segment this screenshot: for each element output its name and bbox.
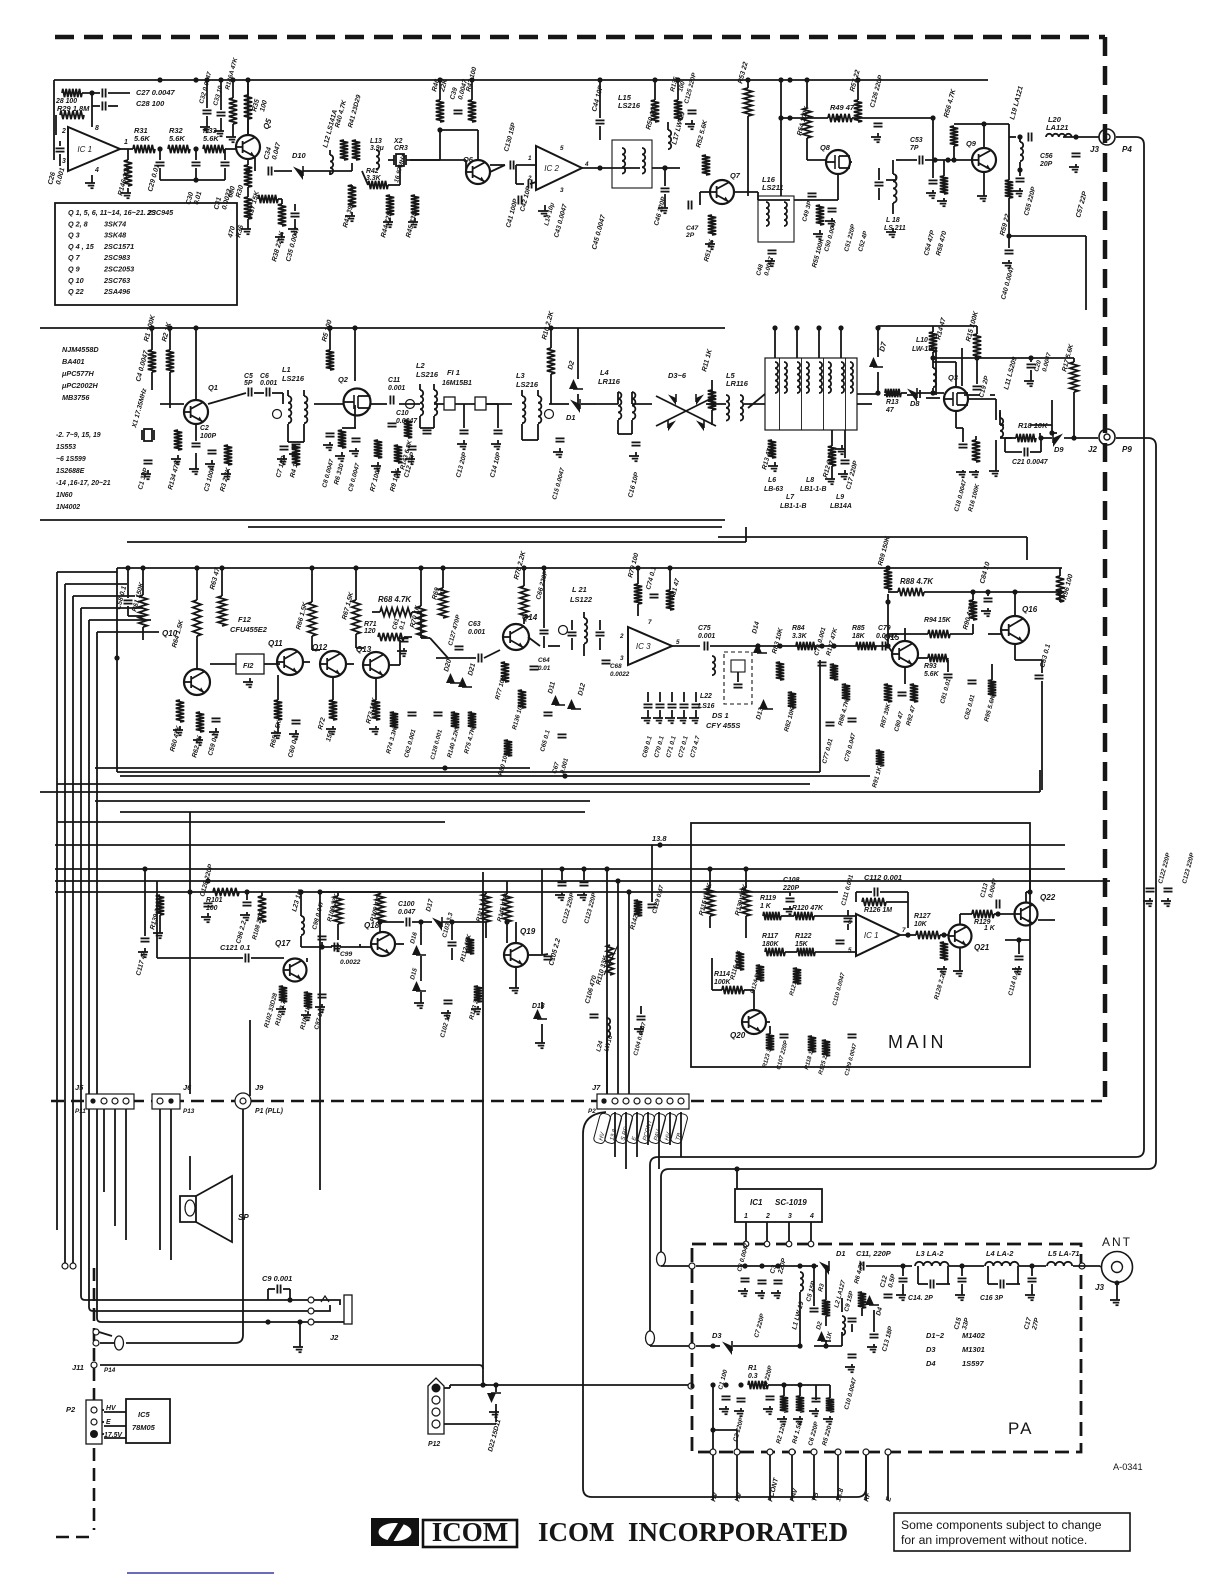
wire bbox=[1005, 451, 1022, 453]
label L20 LA121 bbox=[1046, 115, 1068, 132]
label C30 0.01 bbox=[185, 191, 203, 206]
ground bbox=[823, 1416, 833, 1424]
label D1~2 M1402 bbox=[926, 1331, 986, 1340]
wire bbox=[712, 1385, 714, 1455]
svg-text:Q 9: Q 9 bbox=[68, 265, 80, 274]
wire bbox=[371, 403, 387, 405]
wire bbox=[196, 636, 198, 669]
label L14 10u bbox=[543, 202, 556, 227]
svg-text:D10: D10 bbox=[292, 151, 307, 160]
wire bbox=[1009, 136, 1016, 138]
svg-text:R84: R84 bbox=[792, 625, 805, 632]
capacitor C11pa bbox=[860, 1262, 863, 1271]
svg-text:C47: C47 bbox=[686, 225, 699, 232]
resistor R13 bbox=[885, 389, 901, 397]
label R92 47 bbox=[905, 705, 917, 727]
junction bbox=[742, 1263, 747, 1268]
label R110 33K bbox=[595, 954, 610, 985]
resistor R59 bbox=[1005, 180, 1013, 198]
svg-text:3: 3 bbox=[620, 655, 624, 662]
capacitor C114 bbox=[1015, 956, 1024, 959]
label R103 2.7K bbox=[274, 995, 289, 1026]
long vertical to PLL area 3 bbox=[319, 892, 321, 1190]
wire bbox=[169, 372, 171, 408]
left bus corner stubs bbox=[57, 572, 159, 632]
ground bbox=[793, 1416, 803, 1424]
junction bbox=[932, 157, 937, 162]
junction bbox=[469, 77, 474, 82]
wire bbox=[961, 348, 963, 386]
wire bbox=[254, 392, 264, 394]
svg-text:C64: C64 bbox=[538, 657, 550, 664]
capacitor C2 bbox=[192, 443, 201, 446]
wire bbox=[943, 160, 945, 176]
junction bbox=[1006, 233, 1011, 238]
wire bbox=[560, 403, 569, 405]
wire bbox=[356, 647, 364, 649]
capacitor C9 bbox=[352, 438, 361, 441]
svg-text:D3~6: D3~6 bbox=[668, 371, 687, 380]
label C129 0.47 bbox=[651, 884, 665, 914]
label IC2 pins bbox=[527, 145, 589, 194]
wire bbox=[814, 915, 856, 917]
wire bbox=[789, 892, 791, 896]
junction bbox=[157, 146, 162, 151]
wire bbox=[82, 92, 100, 94]
wire bbox=[95, 800, 590, 802]
label R111 10K bbox=[475, 894, 489, 923]
wire bbox=[55, 880, 1110, 882]
label R9 10K bbox=[389, 468, 402, 493]
resistor R96 bbox=[1056, 576, 1064, 602]
label R3 2.2K bbox=[219, 466, 232, 493]
ground bbox=[289, 730, 299, 739]
resistor R118 bbox=[808, 1036, 816, 1052]
wire bbox=[794, 199, 838, 201]
wire bbox=[995, 440, 997, 468]
svg-text:P4: P4 bbox=[1122, 145, 1132, 154]
wire bbox=[900, 159, 917, 161]
resistor R58 bbox=[940, 176, 948, 194]
capacitor C106 bbox=[590, 1014, 599, 1017]
ground bbox=[937, 966, 947, 974]
label L4 LA-2 bbox=[986, 1249, 1014, 1258]
junction bbox=[745, 77, 750, 82]
label C40 0.0047 bbox=[1000, 265, 1016, 300]
label R43 39K bbox=[342, 199, 356, 228]
junction bbox=[797, 1263, 802, 1268]
svg-text:P2: P2 bbox=[588, 1108, 596, 1115]
wire bbox=[877, 372, 879, 393]
label C105 2.2 bbox=[548, 938, 562, 967]
capacitor C64 bbox=[530, 666, 539, 669]
wire bbox=[399, 640, 401, 665]
resistor R105 bbox=[304, 992, 312, 1008]
label C66 220P bbox=[535, 570, 550, 601]
wire bbox=[1008, 124, 1010, 137]
resistor R33 bbox=[203, 145, 225, 153]
capacitor C39 bbox=[454, 110, 463, 113]
wire bbox=[116, 568, 118, 772]
svg-text:R1: R1 bbox=[748, 1365, 757, 1372]
wire bbox=[127, 149, 129, 160]
svg-text:LS122: LS122 bbox=[570, 595, 593, 604]
junction bbox=[433, 1385, 438, 1390]
junction bbox=[945, 157, 950, 162]
wire bbox=[404, 636, 412, 638]
resistor R62 bbox=[196, 712, 204, 732]
resistor R43 bbox=[348, 185, 356, 207]
PA block dashed outline bbox=[692, 1244, 1081, 1452]
svg-text:Q 10: Q 10 bbox=[68, 276, 84, 285]
diode D13 bbox=[759, 699, 773, 709]
label C26 0.001 bbox=[47, 167, 66, 186]
wire bbox=[312, 649, 320, 651]
label C9 0.001 bbox=[262, 1274, 292, 1283]
svg-text:D1: D1 bbox=[566, 413, 576, 422]
label L7 LB1-1-B bbox=[780, 494, 806, 510]
resistor R28 bbox=[62, 89, 82, 97]
junction bbox=[149, 325, 154, 330]
resistor R86 bbox=[842, 684, 850, 700]
wire bbox=[825, 1340, 827, 1346]
label Q7 bbox=[730, 171, 741, 180]
wire bbox=[436, 657, 476, 659]
wire bbox=[857, 393, 878, 395]
inductor L4b bbox=[632, 392, 635, 419]
junction bbox=[140, 565, 145, 570]
ground bbox=[276, 1006, 286, 1014]
wire bbox=[877, 328, 879, 357]
wire bbox=[813, 1266, 815, 1306]
wire bbox=[220, 118, 222, 128]
wire bbox=[866, 1265, 912, 1267]
svg-text:0.047: 0.047 bbox=[398, 909, 416, 916]
wire bbox=[471, 80, 473, 100]
label L2 LA127 bbox=[833, 1279, 847, 1308]
wire bbox=[745, 869, 747, 888]
label R86 4.7K bbox=[837, 699, 851, 727]
svg-text:R88 4.7K: R88 4.7K bbox=[900, 577, 934, 586]
label R56 4.7K bbox=[943, 88, 958, 119]
label R87 39K bbox=[879, 702, 892, 728]
label R52 5.6K bbox=[695, 118, 709, 148]
wire bbox=[917, 657, 928, 659]
label L10 LW-19 bbox=[912, 337, 932, 353]
capacitor C63 bbox=[478, 654, 481, 663]
svg-text:P11: P11 bbox=[75, 1108, 86, 1115]
junction bbox=[781, 1382, 786, 1387]
wire bbox=[919, 390, 921, 398]
wire bbox=[711, 410, 713, 425]
wire bbox=[962, 428, 964, 442]
resistor R82 bbox=[788, 692, 796, 708]
junction bbox=[797, 1382, 802, 1387]
resistor R128 bbox=[940, 942, 948, 960]
label D14 bbox=[751, 621, 761, 635]
wire bbox=[1019, 1265, 1046, 1267]
label C15 0.0047 bbox=[551, 467, 566, 501]
transistor Q6 bbox=[466, 160, 490, 184]
junction bbox=[662, 165, 667, 170]
wire bbox=[477, 130, 479, 160]
label R37 15K bbox=[247, 189, 261, 218]
wire bbox=[261, 892, 263, 896]
resistor R84 bbox=[796, 642, 816, 650]
wire bbox=[294, 219, 296, 226]
wire bbox=[486, 403, 512, 405]
svg-text:R117: R117 bbox=[762, 933, 779, 940]
wire bbox=[306, 958, 308, 962]
svg-text:IC1: IC1 bbox=[750, 1198, 763, 1207]
inductor L19 bbox=[1020, 142, 1023, 161]
label R137 47K bbox=[825, 627, 839, 657]
wire bbox=[902, 1284, 904, 1292]
wire bbox=[884, 394, 897, 396]
resistor R51 bbox=[708, 215, 716, 235]
resistor R89 bbox=[884, 570, 892, 590]
wire bbox=[1015, 659, 1042, 661]
label R6 330 bbox=[333, 463, 345, 486]
ground bbox=[825, 476, 835, 484]
resistor R38 bbox=[278, 204, 286, 226]
capacitor C126 bbox=[874, 123, 883, 126]
capacitor C130 bbox=[510, 161, 513, 170]
wire bbox=[961, 1284, 963, 1292]
wire bbox=[277, 722, 279, 730]
resistor R109 bbox=[376, 894, 384, 922]
label D22 15D11 bbox=[487, 1418, 502, 1452]
junction bbox=[265, 1319, 270, 1324]
label R121 47K bbox=[789, 968, 802, 996]
ground bbox=[275, 232, 285, 242]
capacitor C5pa bbox=[810, 1308, 819, 1311]
resistor R123 bbox=[766, 1034, 774, 1050]
transistor Q9 bbox=[972, 148, 996, 172]
junction bbox=[168, 1098, 173, 1103]
label C2 100P bbox=[200, 425, 216, 440]
label C10 0.0047 bbox=[396, 410, 418, 425]
wire bbox=[807, 159, 826, 161]
svg-text:J2: J2 bbox=[330, 1333, 339, 1342]
svg-text:18K: 18K bbox=[852, 633, 866, 640]
ground bbox=[193, 736, 203, 745]
wire bbox=[825, 1266, 827, 1300]
resistor R61 bbox=[139, 595, 147, 627]
wire bbox=[711, 380, 713, 404]
wire bbox=[354, 405, 356, 428]
ground bbox=[1069, 164, 1079, 172]
wire bbox=[926, 397, 940, 399]
label C16 3P bbox=[980, 1295, 1003, 1302]
label C78 0.047 bbox=[843, 732, 857, 762]
svg-text:1N60: 1N60 bbox=[56, 492, 73, 499]
junction bbox=[787, 115, 792, 120]
resistor R29 bbox=[60, 111, 84, 119]
capacitor C7pa bbox=[758, 1280, 767, 1283]
label L3 LA-2 bbox=[916, 1249, 944, 1258]
label C99 0.0022 bbox=[340, 951, 361, 966]
capacitor C7 bbox=[280, 446, 289, 449]
transistor Q8 bbox=[826, 150, 850, 174]
junction bbox=[787, 77, 792, 82]
svg-text:C5: C5 bbox=[244, 373, 253, 380]
wire bbox=[852, 117, 933, 119]
wire bbox=[696, 1345, 720, 1347]
capacitor C41 bbox=[518, 196, 521, 205]
label C11 220P bbox=[856, 1249, 891, 1258]
wire bbox=[541, 1024, 543, 1040]
label R126 1M bbox=[864, 907, 892, 914]
wire bbox=[806, 80, 808, 108]
label R83 10K bbox=[771, 626, 785, 654]
svg-text:BA401: BA401 bbox=[62, 357, 85, 366]
resistor R5pa bbox=[826, 1398, 834, 1412]
svg-text:C112 0.001: C112 0.001 bbox=[864, 873, 902, 882]
label R120 47K bbox=[792, 905, 824, 912]
transistor Q5 bbox=[236, 135, 260, 159]
junction bbox=[930, 355, 935, 360]
label R11 1K bbox=[701, 348, 714, 373]
wire bbox=[55, 891, 838, 893]
resistor R94 bbox=[928, 630, 950, 638]
resistor R121 bbox=[793, 968, 801, 984]
wire bbox=[1063, 136, 1099, 138]
label R68 4.7K bbox=[378, 595, 412, 604]
wire bbox=[412, 611, 421, 613]
capacitor C62 bbox=[408, 712, 417, 715]
junction bbox=[981, 121, 986, 126]
label C5 15P bbox=[805, 1280, 817, 1303]
label R109 4.7K bbox=[369, 891, 384, 922]
resistor R6pa bbox=[858, 1292, 866, 1308]
wire bbox=[277, 675, 279, 700]
label C83 0.1 bbox=[1039, 643, 1052, 668]
ground bbox=[226, 134, 236, 142]
wire bbox=[254, 157, 256, 171]
label R54 100K bbox=[796, 105, 811, 137]
wire bbox=[102, 1409, 104, 1411]
label R15 100K bbox=[965, 310, 980, 343]
diode D17 bbox=[432, 917, 442, 931]
inductor L24 bbox=[607, 1018, 610, 1037]
label Q10 bbox=[162, 629, 178, 638]
capacitor C13sh bbox=[899, 1278, 908, 1281]
wire bbox=[932, 160, 934, 178]
label C6 220P bbox=[807, 1420, 820, 1446]
svg-text:P13: P13 bbox=[183, 1108, 195, 1115]
svg-text:IC5: IC5 bbox=[138, 1410, 150, 1419]
resistor R88 bbox=[898, 588, 924, 596]
svg-text:P9: P9 bbox=[1122, 445, 1132, 454]
wire bbox=[994, 913, 1014, 915]
svg-text:NJM4558D: NJM4558D bbox=[62, 345, 99, 354]
inductor L5a bbox=[726, 395, 729, 421]
capacitor C54 bbox=[929, 180, 938, 183]
label C59 0.1 bbox=[207, 732, 220, 757]
caps C69-C73 bbox=[641, 692, 701, 723]
svg-text:J2: J2 bbox=[1088, 445, 1097, 454]
resistor R64 bbox=[193, 600, 201, 636]
transformer bank L6-L9 bbox=[765, 358, 857, 430]
label R139 1.8K bbox=[734, 883, 749, 917]
wire bbox=[54, 79, 988, 81]
label C60 0.1 bbox=[287, 734, 300, 759]
junction bbox=[327, 325, 332, 330]
wire bbox=[247, 159, 249, 165]
resistor R111 bbox=[482, 894, 490, 922]
label C122 220P bbox=[1157, 851, 1172, 884]
label C62 0.001 bbox=[403, 728, 417, 758]
svg-text:1N4002: 1N4002 bbox=[56, 504, 80, 511]
capacitor C14 bbox=[494, 430, 503, 433]
crystal X1 bbox=[142, 429, 154, 441]
wire bbox=[515, 967, 517, 985]
wire bbox=[142, 568, 144, 595]
label C2 220P bbox=[732, 1416, 745, 1442]
capacitor C129 bbox=[648, 904, 657, 907]
junction bbox=[504, 919, 509, 924]
svg-text:Q10: Q10 bbox=[162, 629, 178, 638]
label R64 1.5K bbox=[171, 618, 185, 648]
resistor R143 bbox=[404, 420, 412, 438]
label Q1 bbox=[208, 383, 218, 392]
svg-text:1: 1 bbox=[124, 139, 128, 146]
resistor R77 bbox=[501, 662, 509, 682]
inductor L20 bbox=[1046, 134, 1072, 137]
ground bbox=[326, 726, 336, 734]
capacitor C2pa bbox=[737, 1398, 746, 1401]
capacitor C128 bbox=[204, 903, 213, 906]
svg-text:C108: C108 bbox=[783, 877, 800, 884]
wire bbox=[940, 934, 948, 936]
wire bbox=[785, 951, 797, 953]
wire bbox=[999, 412, 1001, 418]
capacitor C17 bbox=[841, 460, 850, 463]
label Q18 bbox=[364, 921, 380, 930]
junction bbox=[970, 589, 975, 594]
capacitor C30 bbox=[192, 162, 201, 165]
op-amp U IC1 bbox=[68, 127, 120, 171]
capacitor C16pa bbox=[1000, 1280, 1003, 1289]
label L1 LS216 bbox=[282, 365, 305, 383]
connector P12 bbox=[428, 1378, 444, 1448]
resistor R146 bbox=[124, 160, 132, 186]
junction bbox=[823, 1343, 828, 1348]
ground bbox=[414, 1000, 424, 1008]
wire bbox=[359, 944, 361, 947]
svg-text:120: 120 bbox=[364, 628, 376, 635]
transformer L16 can bbox=[758, 196, 794, 242]
wire bbox=[444, 1423, 496, 1425]
label R143 6.8K bbox=[399, 439, 414, 470]
svg-text:P2: P2 bbox=[66, 1405, 76, 1414]
label C1 30P bbox=[137, 467, 150, 491]
diode ring D3-6 bbox=[656, 394, 716, 431]
ground bbox=[1024, 378, 1034, 386]
wire bbox=[748, 394, 765, 408]
junction bbox=[218, 77, 223, 82]
wire bbox=[904, 668, 906, 684]
ground bbox=[189, 466, 199, 474]
left bus bottom corners bbox=[62, 1263, 311, 1322]
capacitor C1pa bbox=[722, 1396, 731, 1399]
resistor R101 bbox=[213, 888, 239, 896]
capacitor C125m bbox=[1164, 888, 1173, 891]
svg-text:R29 1.8M: R29 1.8M bbox=[57, 104, 90, 113]
wire bbox=[127, 568, 129, 598]
svg-text:CFU455E2: CFU455E2 bbox=[230, 625, 268, 634]
